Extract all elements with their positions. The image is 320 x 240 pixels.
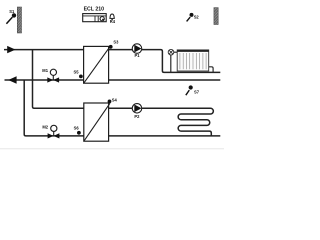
svg-text:S6: S6 (74, 125, 80, 130)
svg-text:S4: S4 (112, 98, 118, 103)
svg-text:ECL 210: ECL 210 (84, 7, 104, 13)
svg-text:S1: S1 (9, 9, 15, 14)
svg-text:R4: R4 (110, 19, 116, 24)
svg-text:P1: P1 (135, 53, 141, 58)
svg-text:S3: S3 (113, 40, 119, 45)
svg-text:S7: S7 (194, 90, 200, 95)
svg-text:M1: M1 (42, 68, 48, 73)
svg-text:P2: P2 (134, 114, 140, 119)
svg-text:S2: S2 (194, 14, 200, 19)
svg-text:S5: S5 (74, 70, 80, 75)
svg-text:M2: M2 (42, 125, 48, 130)
